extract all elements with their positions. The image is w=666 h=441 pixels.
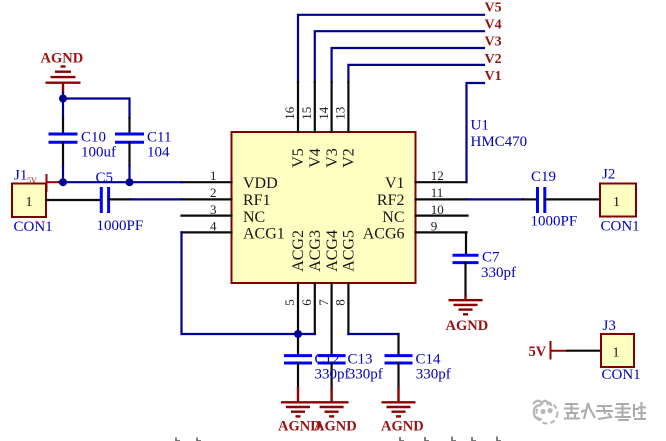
power port 5V at J3 xyxy=(551,341,568,360)
svg-text:CON1: CON1 xyxy=(14,219,53,235)
junction rail at C11 xyxy=(126,178,134,186)
capacitor C12 xyxy=(284,356,312,403)
capacitor C11 xyxy=(115,118,144,166)
wire pin 8 to C14 xyxy=(348,333,398,335)
svg-text:V5: V5 xyxy=(290,148,307,168)
pin 11 xyxy=(416,198,467,200)
pin 8 xyxy=(347,283,349,334)
junction rail at C10 xyxy=(59,178,67,186)
pin 1 xyxy=(182,181,232,183)
capacitor C10 xyxy=(49,118,78,166)
wire net V1 xyxy=(467,83,485,182)
svg-text:330pf: 330pf xyxy=(481,265,516,281)
svg-text:VDD: VDD xyxy=(243,175,278,192)
svg-text:AGND: AGND xyxy=(446,318,489,334)
power port 5V at J1 xyxy=(47,174,60,192)
pin 5 xyxy=(297,283,299,356)
svg-text:1000PF: 1000PF xyxy=(97,218,144,234)
svg-text:6: 6 xyxy=(299,299,314,306)
svg-text:V3: V3 xyxy=(485,35,502,50)
wire RF2 pin 11 to C19 xyxy=(467,198,524,200)
svg-text:1: 1 xyxy=(613,346,620,361)
svg-text:V2: V2 xyxy=(485,52,502,67)
pin 9 xyxy=(416,231,467,233)
pin 15 xyxy=(314,82,316,132)
svg-text:NC: NC xyxy=(243,209,265,226)
svg-text:C10: C10 xyxy=(81,130,106,146)
capacitor C14 xyxy=(385,356,413,403)
svg-text:AGND: AGND xyxy=(381,419,424,435)
svg-text:NC: NC xyxy=(382,209,404,226)
svg-text:330pf: 330pf xyxy=(315,367,350,383)
svg-text:5V: 5V xyxy=(529,344,547,360)
svg-text:100uf: 100uf xyxy=(81,145,116,161)
svg-text:V2: V2 xyxy=(341,148,358,168)
wire down to C14 xyxy=(397,334,399,356)
svg-text:C5: C5 xyxy=(96,170,114,186)
wire C10 bottom to rail xyxy=(62,166,64,182)
capacitor C5 xyxy=(101,187,130,213)
pin 14 xyxy=(331,82,333,132)
watermark logo xyxy=(533,401,558,424)
svg-text:330pf: 330pf xyxy=(348,367,383,383)
junction bottom rail at C12 xyxy=(294,330,302,338)
svg-text:15: 15 xyxy=(299,107,314,120)
wire C11 bottom to rail xyxy=(128,166,130,182)
wire net V4 xyxy=(315,31,484,82)
pin 3 xyxy=(182,215,232,217)
svg-text:ACG6: ACG6 xyxy=(363,226,405,243)
svg-text:U1: U1 xyxy=(471,117,489,133)
svg-text:10: 10 xyxy=(431,202,444,217)
wire net V5 xyxy=(298,15,484,82)
svg-text:11: 11 xyxy=(431,185,444,200)
bottom cropped caption marks xyxy=(176,437,501,441)
wire net V3 xyxy=(332,48,484,82)
svg-text:1: 1 xyxy=(613,195,620,210)
svg-text:3: 3 xyxy=(210,202,217,217)
svg-text:C11: C11 xyxy=(147,130,171,146)
svg-text:13: 13 xyxy=(333,107,348,120)
wire J1 to C5 xyxy=(46,199,100,201)
wire ACG1 pin 4 loop to bottom xyxy=(182,232,315,334)
svg-text:CON1: CON1 xyxy=(601,219,640,235)
connector J2 xyxy=(600,184,636,217)
pin 7 xyxy=(331,283,333,356)
pin 4 xyxy=(182,231,232,233)
svg-text:CON1: CON1 xyxy=(602,367,641,383)
svg-text:8: 8 xyxy=(333,299,348,306)
wire down to C10 xyxy=(62,99,64,119)
svg-text:2: 2 xyxy=(210,185,217,200)
svg-text:J1: J1 xyxy=(14,168,27,184)
svg-text:16: 16 xyxy=(282,106,297,120)
svg-text:ACG4: ACG4 xyxy=(324,230,341,272)
svg-text:104: 104 xyxy=(147,145,170,161)
wire net V2 xyxy=(348,65,484,82)
svg-text:V4: V4 xyxy=(307,148,324,168)
wire C5 to RF1 pin 2 xyxy=(131,198,182,200)
connector J3 xyxy=(601,334,634,367)
svg-text:ACG3: ACG3 xyxy=(307,230,324,272)
ground AGND under C7 xyxy=(449,300,483,314)
pin 12 xyxy=(416,181,467,183)
svg-text:RF1: RF1 xyxy=(243,192,271,209)
pin 16 xyxy=(297,82,299,132)
svg-text:ACG5: ACG5 xyxy=(341,230,358,272)
svg-text:AGND: AGND xyxy=(41,51,84,67)
svg-text:V1: V1 xyxy=(485,69,502,84)
svg-text:1000PF: 1000PF xyxy=(531,214,578,230)
capacitor C7 xyxy=(453,255,479,300)
svg-text:C7: C7 xyxy=(482,250,500,266)
pin 13 xyxy=(347,82,349,132)
svg-text:ACG1: ACG1 xyxy=(243,226,285,243)
svg-text:C14: C14 xyxy=(416,352,442,368)
watermark text xyxy=(564,402,646,420)
op: IC U1 body xyxy=(232,132,416,283)
svg-text:330pf: 330pf xyxy=(416,367,451,383)
svg-text:J3: J3 xyxy=(603,318,616,334)
capacitor C13 xyxy=(318,356,346,403)
pin 2 xyxy=(182,198,232,200)
wire 5V rail to VDD pin 1 xyxy=(59,181,182,183)
svg-text:12: 12 xyxy=(431,168,444,183)
ground AGND under C12 xyxy=(281,402,315,416)
svg-text:V1: V1 xyxy=(385,175,405,192)
svg-text:C12: C12 xyxy=(315,352,340,368)
pin 10 xyxy=(416,215,468,217)
wire ACG6 pin 9 down to C7 xyxy=(465,232,467,255)
svg-text:C19: C19 xyxy=(531,169,556,185)
svg-text:1: 1 xyxy=(26,195,33,210)
svg-text:9: 9 xyxy=(431,219,438,234)
wire ground stem to node xyxy=(62,93,64,99)
svg-text:ACG2: ACG2 xyxy=(290,230,307,272)
svg-text:AGND: AGND xyxy=(314,419,357,435)
svg-text:14: 14 xyxy=(316,106,331,120)
junction at C10 top xyxy=(59,95,67,103)
wire 5V port to J3 xyxy=(568,350,602,352)
ground AGND under C13 xyxy=(315,402,349,416)
svg-text:4: 4 xyxy=(210,219,217,234)
svg-text:7: 7 xyxy=(316,299,331,306)
svg-text:HMC470: HMC470 xyxy=(471,134,528,150)
svg-text:RF2: RF2 xyxy=(377,192,405,209)
svg-text:J2: J2 xyxy=(602,167,615,183)
capacitor C19 xyxy=(523,187,600,213)
connector J1 xyxy=(12,184,46,218)
pin 6 xyxy=(314,283,316,334)
svg-text:V3: V3 xyxy=(324,148,341,168)
svg-text:V4: V4 xyxy=(485,18,502,33)
svg-text:1: 1 xyxy=(210,168,217,183)
svg-text:V5: V5 xyxy=(485,1,502,16)
svg-text:C13: C13 xyxy=(348,352,373,368)
wire C10 top to C11 top xyxy=(63,99,130,119)
svg-text:5: 5 xyxy=(282,299,297,306)
ground AGND top-left symbol xyxy=(46,67,81,94)
ground AGND under C14 xyxy=(382,402,416,416)
